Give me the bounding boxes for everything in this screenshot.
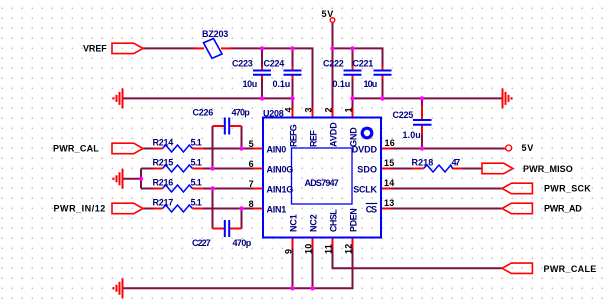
svg-text:CHSL: CHSL xyxy=(329,209,339,232)
node AIN1G-C227 xyxy=(210,186,214,190)
capacitor C223 xyxy=(253,71,271,75)
5V right tick xyxy=(504,148,506,150)
node VREF-C224 xyxy=(290,46,294,50)
svg-text:AIN1: AIN1 xyxy=(267,205,287,215)
pin 1 GND xyxy=(352,108,354,118)
svg-text:14: 14 xyxy=(384,178,394,188)
ground bottom-left xyxy=(114,278,123,298)
svg-text:5: 5 xyxy=(249,139,254,149)
wire C222 stubs xyxy=(352,48,354,67)
pin 13 CS xyxy=(381,208,391,210)
R214 leads xyxy=(153,148,163,150)
pin 12 PDEN xyxy=(352,238,354,248)
svg-text:10: 10 xyxy=(304,244,314,254)
pin 14 SCLK xyxy=(381,188,391,190)
svg-text:2: 2 xyxy=(323,107,333,112)
buzzer BZ203 body xyxy=(204,39,223,59)
node DVDD-C225 xyxy=(420,146,424,150)
capacitor C222 xyxy=(344,71,362,75)
svg-text:ADS7947: ADS7947 xyxy=(305,178,340,188)
wire R214 to pin5 xyxy=(203,148,254,150)
svg-text:5V: 5V xyxy=(522,143,534,153)
svg-text:4: 4 xyxy=(283,107,293,112)
CS overline xyxy=(366,203,378,205)
pin 16 DVDD xyxy=(381,148,391,150)
svg-text:NC1: NC1 xyxy=(289,214,299,232)
wire C223 stubs xyxy=(261,48,263,67)
svg-text:3: 3 xyxy=(303,107,313,112)
IC U208 ADS7947 outer body xyxy=(263,118,381,238)
svg-text:5.1: 5.1 xyxy=(191,138,203,148)
svg-text:470p: 470p xyxy=(233,238,252,248)
port PWR_SCK xyxy=(502,183,532,194)
svg-text:C227: C227 xyxy=(192,238,211,248)
svg-text:9: 9 xyxy=(284,249,294,254)
wire SCLK to PWR_SCK xyxy=(391,188,503,190)
port PWR_IN/12 xyxy=(112,203,143,214)
node 5V-AVDD xyxy=(330,46,334,50)
svg-text:C225: C225 xyxy=(393,110,414,120)
wire C225 stubs xyxy=(421,98,423,106)
PINS (red) xyxy=(153,48,506,247)
pin 10 NC2 xyxy=(312,238,314,248)
svg-text:15: 15 xyxy=(384,158,394,168)
BZ203 pins xyxy=(194,47,204,49)
pin 8 AIN1 xyxy=(254,208,264,210)
TEXT navy designators/values xyxy=(153,29,461,248)
svg-text:12: 12 xyxy=(344,244,354,254)
pin 9 NC1 xyxy=(292,238,294,248)
svg-text:CS: CS xyxy=(366,205,378,215)
wire BZ203 to REF corner xyxy=(230,48,313,109)
wire right ground rail xyxy=(353,97,503,99)
pin 7 AIN1G xyxy=(254,188,264,190)
node NC2 rail xyxy=(310,286,314,290)
svg-text:PWR_MISO: PWR_MISO xyxy=(523,164,573,174)
svg-text:16: 16 xyxy=(385,138,395,148)
wire left ground rail xyxy=(123,98,293,109)
svg-text:AIN1G: AIN1G xyxy=(267,185,294,195)
svg-text:REFG: REFG xyxy=(289,124,299,147)
svg-text:C224: C224 xyxy=(264,59,285,69)
wire VREF to BZ203 xyxy=(143,47,196,49)
svg-text:GND: GND xyxy=(349,127,359,147)
node VREF-C223 xyxy=(260,46,264,50)
svg-text:R218: R218 xyxy=(412,158,434,168)
node AIN0G-C226 xyxy=(210,166,214,170)
5V right circle xyxy=(506,145,512,151)
svg-text:PDEN: PDEN xyxy=(349,208,359,232)
svg-text:C221: C221 xyxy=(353,59,374,69)
node gnd tee xyxy=(139,177,143,181)
svg-text:REF: REF xyxy=(309,130,319,147)
svg-text:C222: C222 xyxy=(323,59,344,69)
svg-text:5.1: 5.1 xyxy=(191,198,203,208)
wire AVDD drop xyxy=(332,48,334,109)
ground mid-left xyxy=(114,169,123,189)
pin 4 REFG xyxy=(292,108,294,118)
wire SDO to R218 xyxy=(391,168,413,170)
pin 3 REF xyxy=(312,108,314,118)
C225 leads xyxy=(421,105,423,120)
svg-text:PWR_IN/12: PWR_IN/12 xyxy=(54,204,106,214)
svg-text:1: 1 xyxy=(343,107,353,112)
svg-text:11: 11 xyxy=(324,244,334,254)
node gnd-C222 xyxy=(350,96,354,100)
ground right xyxy=(503,88,512,108)
node AIN1-C227 xyxy=(239,206,243,210)
wire NC2 drop xyxy=(312,248,314,289)
capacitor C225 xyxy=(413,120,432,125)
capacitor C224 xyxy=(284,71,302,75)
svg-text:5.1: 5.1 xyxy=(191,178,203,188)
port PWR_AD xyxy=(502,203,532,214)
R218 leads xyxy=(412,168,424,170)
pin 6 AIN0G xyxy=(254,168,264,170)
node 5V-C222 xyxy=(350,46,354,50)
C221 leads xyxy=(382,66,384,70)
wire C226 left vertical xyxy=(212,126,214,169)
svg-text:SCLK: SCLK xyxy=(353,185,377,195)
svg-text:NC2: NC2 xyxy=(309,214,319,232)
node AIN0-C226 xyxy=(239,146,243,150)
pin 11 CHSL xyxy=(332,238,334,248)
port PWR_CALE xyxy=(502,263,532,273)
C226 leads xyxy=(213,125,225,127)
port PWR_CAL xyxy=(112,143,143,154)
svg-text:R214: R214 xyxy=(153,138,174,148)
capacitor C226 xyxy=(225,118,229,135)
svg-text:BZ203: BZ203 xyxy=(202,29,229,39)
wire CHSL to PWR_CALE xyxy=(333,248,503,269)
resistor R216 xyxy=(163,185,193,192)
wire NC1 drop xyxy=(292,248,294,289)
wire R215 to pin6 xyxy=(203,168,254,170)
svg-text:47: 47 xyxy=(452,158,461,168)
IC inner rect xyxy=(292,148,353,204)
pin 2 AVDD xyxy=(332,108,334,118)
svg-text:R216: R216 xyxy=(153,178,174,188)
svg-text:PWR_AD: PWR_AD xyxy=(544,204,582,214)
svg-text:PWR_SCK: PWR_SCK xyxy=(544,184,591,194)
wire mid ground tee xyxy=(123,178,142,180)
wire R216 to pin7 xyxy=(203,188,254,190)
svg-text:AIN0G: AIN0G xyxy=(267,165,294,175)
svg-text:C226: C226 xyxy=(193,108,214,118)
capacitor C227 xyxy=(225,220,229,237)
wire C227 left vertical xyxy=(212,189,214,229)
wire PWR_CAL to R214 xyxy=(142,148,153,150)
node gnd-pin4 xyxy=(290,96,294,100)
resistor R217 xyxy=(163,205,193,212)
wire C227 right vertical xyxy=(241,209,243,229)
svg-text:470p: 470p xyxy=(232,108,251,118)
pin 5 AIN0 xyxy=(254,148,264,150)
wire PWR_IN/12 to R217 xyxy=(142,208,153,210)
5V top circle xyxy=(330,18,335,23)
R216 leads xyxy=(153,188,163,190)
wire CS to PWR_AD xyxy=(391,208,503,210)
svg-text:VREF: VREF xyxy=(83,44,107,54)
wire C221 bottom stub xyxy=(382,78,384,98)
svg-text:5V: 5V xyxy=(322,9,334,19)
wire C224 stubs xyxy=(292,48,294,67)
C222 leads xyxy=(352,66,354,70)
C223 leads xyxy=(261,66,263,70)
svg-text:10u: 10u xyxy=(364,79,378,89)
svg-text:AVDD: AVDD xyxy=(329,122,339,147)
port PWR_MISO xyxy=(482,163,513,174)
pin 15 SDO xyxy=(381,168,391,170)
node gnd-C223 xyxy=(260,96,264,100)
IC thermal pad donut xyxy=(362,128,372,138)
wire R218 to PWR_MISO xyxy=(461,168,483,170)
wire 5V drop xyxy=(332,22,334,48)
ground top-left xyxy=(114,88,123,108)
C227 leads xyxy=(213,228,225,230)
wire R217 to pin8 xyxy=(203,208,254,210)
svg-text:PWR_CALE: PWR_CALE xyxy=(544,264,597,274)
svg-text:0.1u: 0.1u xyxy=(273,79,291,89)
node gnd-C225 xyxy=(420,96,424,100)
TEXT black xyxy=(53,9,597,274)
svg-text:7: 7 xyxy=(249,179,254,189)
svg-text:PWR_CAL: PWR_CAL xyxy=(53,144,99,154)
svg-text:SDO: SDO xyxy=(357,165,377,175)
svg-text:AIN0: AIN0 xyxy=(267,145,287,155)
wire 5V rail to C221 xyxy=(333,48,383,67)
resistor R215 xyxy=(163,165,193,172)
R215 leads xyxy=(153,168,163,170)
R217 leads xyxy=(153,208,163,210)
node gnd-C221 xyxy=(380,96,384,100)
svg-text:C223: C223 xyxy=(232,59,253,69)
node NC1 rail xyxy=(290,286,294,290)
C224 leads xyxy=(292,66,294,70)
port VREF xyxy=(112,43,143,53)
svg-text:5.1: 5.1 xyxy=(191,158,203,168)
wire C226 right vertical xyxy=(241,126,243,149)
wire DVDD to 5V xyxy=(391,148,504,150)
svg-text:R215: R215 xyxy=(153,158,174,168)
svg-text:13: 13 xyxy=(384,198,394,208)
wire GND pin drop xyxy=(352,98,354,109)
svg-text:8: 8 xyxy=(249,199,254,209)
svg-text:0.1u: 0.1u xyxy=(333,79,351,89)
resistor R218 xyxy=(424,165,453,172)
wire PDEN drop xyxy=(123,248,353,289)
svg-text:1.0u: 1.0u xyxy=(403,130,422,140)
svg-text:R217: R217 xyxy=(153,198,174,208)
svg-text:10u: 10u xyxy=(243,79,258,89)
svg-text:6: 6 xyxy=(249,159,254,169)
resistor R214 xyxy=(163,145,193,152)
svg-text:U208: U208 xyxy=(263,109,284,119)
capacitor C221 xyxy=(374,71,392,75)
